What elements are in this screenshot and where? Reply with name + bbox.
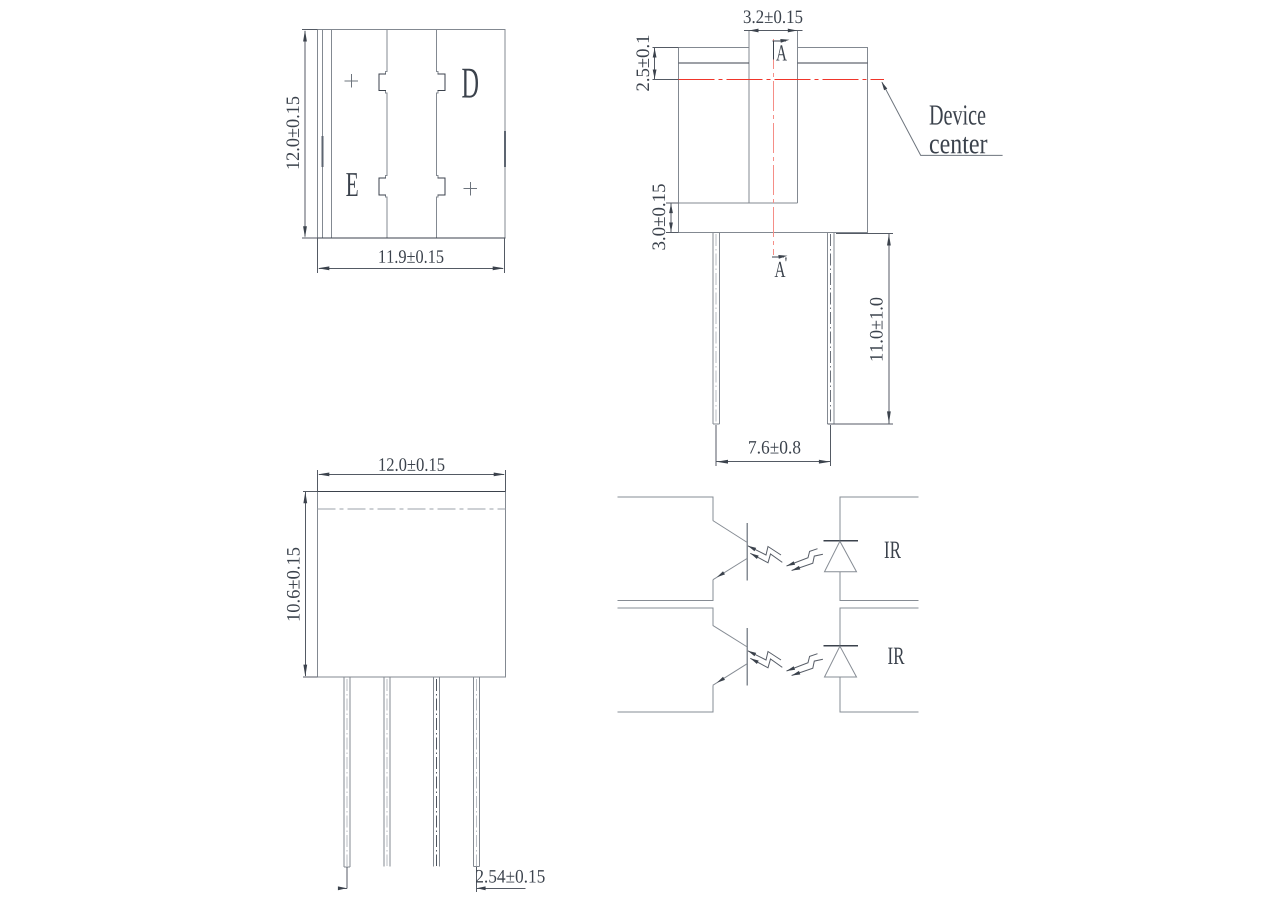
left lead (section view) (713, 232, 720, 423)
right lead (section view) (827, 232, 834, 423)
IR label ch2 (888, 648, 904, 664)
tab bracket lower-right (438, 178, 446, 195)
dimension 3.2±0.15 (slot width) (744, 30, 802, 32)
label E (346, 173, 357, 196)
mold gate mark left edge (321, 136, 323, 167)
leader arrow to device center (882, 82, 1003, 155)
slot wall right (797, 31, 799, 204)
lead 3 (434, 677, 440, 867)
wire ch1 collector terminal (618, 497, 713, 521)
phototransistor Q2 base bar (746, 628, 748, 686)
left channel wall (379, 30, 387, 239)
section mark A (top) (773, 41, 786, 60)
plus mark top-left (345, 74, 358, 87)
dimension 3.0±0.15 (ledge to bottom) (666, 203, 679, 232)
dimension 11.0±1.0 (lead length) (827, 234, 893, 424)
light arrows ch2 emitter side (787, 654, 823, 676)
label D (462, 69, 478, 98)
tab bracket upper-left (379, 74, 386, 91)
top edge dark (318, 490, 506, 492)
inner mold line left b (331, 30, 333, 239)
body outline (679, 48, 868, 233)
LED D1 triangle (825, 541, 857, 572)
centerline dash-dot near top (318, 508, 506, 510)
slot wall left (748, 31, 750, 204)
section mark A' (bottom) (772, 256, 784, 258)
red section vertical centerline A-A (772, 39, 774, 255)
red device-center horizontal centerline (679, 78, 884, 80)
tab bracket upper-right (438, 74, 446, 91)
bottom edge dark (view 1) (302, 237, 506, 239)
light arrows ch1 receiver (748, 546, 783, 563)
package body outline (318, 30, 506, 239)
LED D2 cathode bar (824, 645, 858, 647)
slot bottom / ledge line (679, 202, 798, 204)
lead 1 (344, 677, 350, 867)
light arrows ch1 emitter side (787, 549, 823, 571)
phototransistor Q1 base bar (746, 523, 748, 581)
plus mark bottom-right (464, 182, 477, 195)
Device center label (930, 105, 986, 125)
dimension 11.9±0.15 (below view 1) (318, 238, 505, 273)
LED D2 anode/cathode wires and terminals (840, 608, 919, 646)
LED D1 anode/cathode wires and terminals (840, 497, 919, 541)
phototransistor Q1 emitter (713, 559, 747, 580)
inner mold line left a (321, 30, 323, 239)
dimension 2.54±0.15 (lead pitch) (340, 867, 526, 892)
LED D2 triangle (825, 646, 857, 677)
inner dark line below top (679, 62, 868, 64)
phototransistor Q2 emitter (713, 664, 747, 686)
phototransistor Q2 collector (713, 625, 748, 647)
dimension 10.6±0.15 (left of view 3) (303, 491, 318, 677)
mold gate mark right edge (504, 131, 506, 167)
lead 4 (474, 677, 480, 867)
body outline (318, 491, 506, 677)
right channel wall (436, 30, 445, 239)
dimension 7.6±0.8 (lead span) (716, 425, 831, 466)
phototransistor Q1 collector (713, 521, 748, 543)
IR label ch1 (885, 542, 901, 558)
dimension 2.5±0.1 (top to center) (653, 48, 679, 80)
tab bracket lower-left (379, 178, 386, 195)
dimension 12.0±0.15 (above view 3) (318, 470, 506, 491)
LED D1 cathode bar (824, 540, 858, 542)
wire ch2 collector terminal (618, 608, 713, 625)
wire ch2 emitter terminal (618, 685, 713, 712)
dimension 12.0±0.15 (left of view 1) (302, 30, 318, 239)
wire ch1 emitter terminal (618, 580, 713, 601)
light arrows ch2 receiver (748, 651, 783, 668)
lead 2 (384, 677, 390, 867)
